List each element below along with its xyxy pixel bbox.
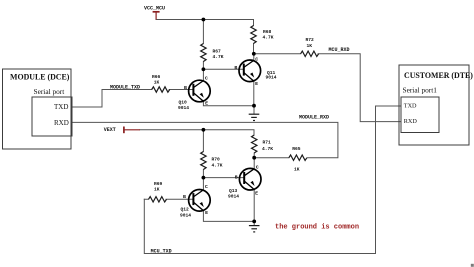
- svg-text:R72: R72: [306, 37, 315, 43]
- svg-text:1K: 1K: [294, 167, 300, 173]
- wire Q13 emitter down: [253, 190, 255, 222]
- resistor R71 4.7K vertical: [252, 135, 257, 153]
- wire Q10 emitter down and right: [203, 101, 254, 105]
- node R70 Q12 collector Q13 base junction: [202, 176, 206, 180]
- wire R68 bottom to node: [253, 44, 255, 54]
- svg-text:MODULE (DCE): MODULE (DCE): [10, 73, 70, 82]
- power symbol VCC_MCU: [153, 12, 160, 20]
- wire emitter node to upper ground: [253, 106, 255, 114]
- svg-text:R69: R69: [154, 181, 163, 187]
- wire R71 bottom to node: [253, 153, 255, 158]
- CUSTOMER serial port inner box: [401, 97, 439, 133]
- wire VEXT node to R70 top: [202, 130, 204, 152]
- wire VCC rail to R67 top: [202, 20, 204, 44]
- svg-text:the ground is common: the ground is common: [275, 223, 359, 231]
- svg-text:R65: R65: [292, 146, 301, 152]
- svg-text:9014: 9014: [266, 74, 277, 80]
- svg-text:E: E: [255, 191, 258, 197]
- svg-text:9014: 9014: [228, 193, 239, 199]
- resistor R66 1K horizontal: [152, 87, 170, 92]
- node VEXT R70 junction: [202, 128, 206, 132]
- MODULE serial port inner box: [32, 97, 72, 136]
- svg-text:Serial port: Serial port: [34, 87, 65, 96]
- wire node to Q13 base: [203, 177, 244, 179]
- wire R65 left to Q13 collector node: [254, 157, 289, 159]
- svg-text:R71: R71: [263, 140, 272, 146]
- node VCC rail R67 junction: [202, 18, 206, 22]
- resistor R68 4.7K vertical: [251, 26, 256, 44]
- svg-text:B: B: [183, 194, 186, 200]
- MODULE (DCE) outer box: [3, 69, 72, 149]
- svg-text:VCC_MCU: VCC_MCU: [144, 5, 165, 11]
- wire Q12 emitter down and right: [203, 211, 254, 222]
- svg-text:4.7K: 4.7K: [213, 54, 224, 60]
- svg-text:1K: 1K: [154, 80, 160, 86]
- wire VCC_MCU rail top: [156, 19, 254, 21]
- svg-text:B: B: [184, 85, 187, 91]
- svg-text:VEXT: VEXT: [104, 127, 116, 133]
- svg-text:4.7K: 4.7K: [263, 35, 274, 41]
- svg-text:Q13: Q13: [229, 188, 238, 194]
- svg-text:TXD: TXD: [54, 103, 68, 111]
- svg-text:C: C: [255, 56, 258, 62]
- resistor R70 4.7K vertical: [201, 152, 206, 170]
- resistor R69 1K horizontal: [149, 197, 167, 202]
- node R68 R72 Q11 collector junction: [252, 52, 256, 56]
- svg-text:1K: 1K: [307, 43, 313, 49]
- node R71 Q13 collector R65 junction: [252, 156, 256, 160]
- transistor Q12: [189, 190, 211, 212]
- svg-text:RXD: RXD: [404, 118, 418, 125]
- resistor R67 4.7K vertical: [201, 44, 206, 62]
- svg-text:RXD: RXD: [54, 119, 69, 127]
- svg-text:MODULE_RXD: MODULE_RXD: [299, 115, 329, 121]
- transistor Q13: [239, 168, 261, 190]
- svg-text:4.7K: 4.7K: [262, 146, 273, 152]
- ground upper: [249, 114, 260, 120]
- wire MCU_TXD loop left riser bottom run and right riser to CUSTOMER TXD: [144, 106, 401, 254]
- svg-text:MCU_RXD: MCU_RXD: [329, 47, 350, 53]
- node lower emitters ground junction: [252, 220, 256, 224]
- svg-text:R68: R68: [263, 29, 272, 35]
- svg-text:B: B: [235, 174, 238, 180]
- resistor R72 1K horizontal: [301, 51, 319, 56]
- svg-text:E: E: [205, 101, 208, 107]
- node upper emitters ground junction: [252, 104, 256, 108]
- wire VCC rail corner to R68 top: [253, 20, 255, 26]
- svg-text:Q12: Q12: [181, 207, 190, 213]
- ground lower: [249, 226, 260, 232]
- CUSTOMER (DTE) outer box: [399, 65, 469, 145]
- wire left riser to R69 and R69 to Q12 base: [144, 198, 193, 200]
- wire MCU_RXD node to R72: [254, 53, 301, 55]
- svg-text:B: B: [234, 65, 237, 71]
- svg-text:9014: 9014: [180, 212, 191, 218]
- transistor Q11: [239, 60, 261, 82]
- wire Q11 collector stub: [253, 54, 255, 61]
- svg-text:4.7K: 4.7K: [212, 163, 223, 169]
- transistor Q10: [189, 80, 211, 102]
- wire MODULE TXD pin to R66: [72, 90, 152, 108]
- wire R72 to CUSTOMER RXD pin: [318, 54, 401, 122]
- wire VEXT line to R71 top: [140, 130, 254, 135]
- svg-text:CUSTOMER (DTE): CUSTOMER (DTE): [404, 71, 473, 80]
- svg-text:1K: 1K: [154, 187, 160, 193]
- svg-text:R70: R70: [212, 157, 221, 163]
- node R67 Q10 collector Q11 base junction: [202, 67, 206, 71]
- svg-text:MODULE_TXD: MODULE_TXD: [110, 85, 140, 91]
- resistor R65 1K horizontal: [289, 155, 307, 160]
- wire Q11 emitter down: [253, 81, 255, 105]
- svg-text:R66: R66: [152, 74, 161, 80]
- wire node to Q11 base: [203, 68, 244, 70]
- wire R67 bottom to Q10 collector: [202, 62, 204, 81]
- svg-text:E: E: [255, 81, 258, 87]
- wire emitter node to lower ground: [253, 221, 255, 225]
- power symbol VEXT: [124, 127, 140, 134]
- svg-text:R67: R67: [213, 49, 222, 55]
- wire Q13 collector stub: [253, 158, 255, 169]
- corner speck: [471, 264, 474, 267]
- svg-text:Q10: Q10: [179, 100, 188, 106]
- wire R70 bottom to Q12 collector: [202, 170, 204, 190]
- svg-text:E: E: [205, 210, 208, 216]
- svg-text:TXD: TXD: [404, 103, 417, 110]
- wire MODULE RXD line to R65 right: [72, 122, 338, 157]
- svg-text:C: C: [256, 164, 259, 170]
- svg-text:C: C: [205, 75, 208, 81]
- wire R66 to Q10 base: [169, 89, 193, 91]
- svg-text:C: C: [205, 184, 208, 190]
- svg-text:MCU_TXD: MCU_TXD: [151, 248, 172, 254]
- svg-text:Serial port1: Serial port1: [403, 86, 438, 95]
- svg-text:9014: 9014: [178, 105, 189, 111]
